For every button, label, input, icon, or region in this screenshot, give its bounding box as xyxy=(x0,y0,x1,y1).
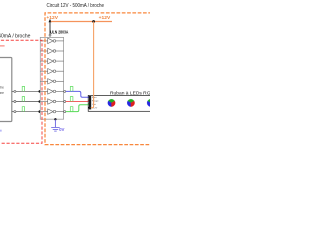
pwm pulse icon wire1 left xyxy=(22,87,24,92)
wire +12V rail (orange) xyxy=(51,21,112,23)
wire green out8 to strip xyxy=(66,105,89,112)
pin circle U1 out7 xyxy=(64,101,66,103)
connector pad 4 xyxy=(88,107,89,109)
pin stub U2 pin2 xyxy=(12,101,14,103)
supply arrow xyxy=(49,19,52,22)
LED strip body xyxy=(88,95,152,111)
svg-text:broche: broche xyxy=(0,86,4,90)
microcontroller U2 (clipped at left edge) xyxy=(0,58,12,122)
pin circle U1 out8 xyxy=(64,111,66,113)
ground pin dot U1 xyxy=(54,118,56,120)
channel 3 xyxy=(40,58,63,63)
svg-text:une: une xyxy=(0,91,4,95)
svg-text:ULN 2803A: ULN 2803A xyxy=(50,29,68,34)
junction dot rail xyxy=(92,20,95,23)
wire blue out6 to strip xyxy=(66,91,89,97)
channel 1 xyxy=(40,38,63,43)
dashed border orange box (12V circuit) xyxy=(45,13,152,145)
channel 5 xyxy=(40,79,63,84)
svg-text:+12V: +12V xyxy=(46,15,59,20)
pwm pulse icon green wire xyxy=(70,107,73,112)
connector pad 2 xyxy=(88,100,89,102)
svg-text:+12V: +12V xyxy=(99,15,112,20)
junction dot in7 xyxy=(39,100,42,103)
svg-text:Circuit 12V - 500mA / broche: Circuit 12V - 500mA / broche xyxy=(47,3,105,9)
pin circle U1 COM xyxy=(49,34,51,36)
connector pad 3 xyxy=(88,103,89,105)
junction dot in6 xyxy=(39,90,42,93)
LED D1 xyxy=(108,99,115,106)
junction dot in8 xyxy=(39,110,42,113)
wire to ground xyxy=(54,120,56,128)
connector pad 1 xyxy=(88,96,89,98)
svg-text:Bleu: Bleu xyxy=(92,97,97,99)
wire +12V down to strip (orange) xyxy=(91,22,94,108)
wire red out7 to strip xyxy=(66,101,89,103)
channel 6 xyxy=(40,89,63,94)
ground symbol xyxy=(51,128,60,132)
channel 8 xyxy=(40,109,63,114)
svg-text:Circuit 5V - 40mA / broche: Circuit 5V - 40mA / broche xyxy=(0,33,31,39)
pwm pulse icon wire2 left xyxy=(22,97,24,102)
wire +12V to U1 COM xyxy=(49,22,51,35)
channel 2 xyxy=(40,48,63,53)
pwm pulse icon red wire xyxy=(70,97,73,102)
pin stub U2 pin3 xyxy=(12,111,14,113)
strip connector xyxy=(89,96,91,109)
label fragment (blue) xyxy=(0,130,2,132)
pwm pulse icon wire3 left xyxy=(22,107,24,112)
pwm pulse icon blue wire xyxy=(70,87,73,92)
red wire stub (clipped left) xyxy=(0,45,5,47)
svg-text:0V: 0V xyxy=(59,127,64,132)
LED D3 (clipped) xyxy=(147,99,154,106)
channel 7 xyxy=(40,99,63,104)
channel 4 xyxy=(40,69,63,74)
strip pin labels xyxy=(92,97,99,110)
dashed border red box (5V circuit) xyxy=(0,40,42,143)
LED D2 xyxy=(127,99,134,106)
pin stub U2 pin1 xyxy=(12,90,14,92)
wire U2 pin2 to U1 in7 xyxy=(16,101,40,103)
wire U2 pin3 to U1 in8 xyxy=(16,111,40,113)
pin circle U1 out6 xyxy=(64,90,66,92)
wire U2 pin1 to U1 in6 xyxy=(16,90,40,92)
